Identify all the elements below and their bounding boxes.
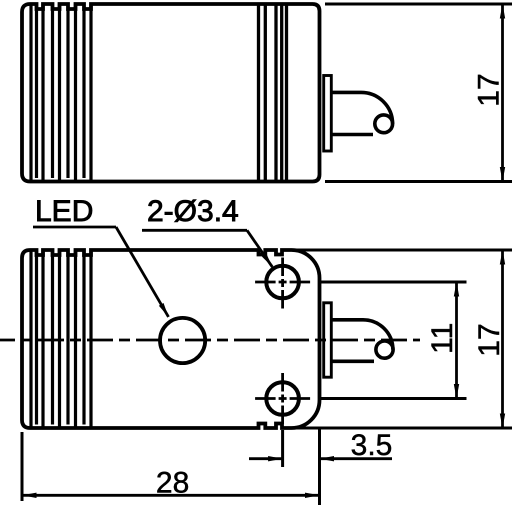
svg-text:17: 17 [473, 73, 506, 106]
svg-text:28: 28 [156, 467, 189, 500]
svg-text:2-Ø3.4: 2-Ø3.4 [147, 195, 239, 228]
svg-text:LED: LED [35, 195, 93, 228]
svg-text:3.5: 3.5 [351, 429, 393, 462]
svg-text:11: 11 [426, 323, 459, 354]
svg-text:17: 17 [473, 323, 506, 356]
